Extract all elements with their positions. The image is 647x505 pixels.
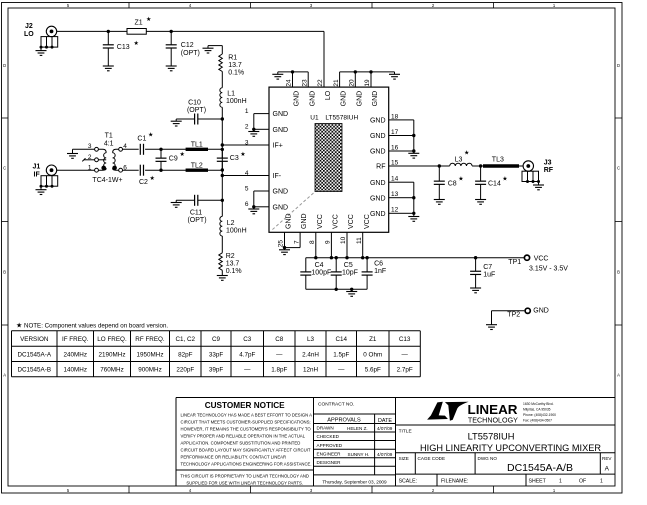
svg-text:Thursday, September 03, 2009: Thursday, September 03, 2009 <box>322 479 387 484</box>
svg-text:C12: C12 <box>181 42 194 49</box>
svg-text:HIGH LINEARITY UPCONVERTING MI: HIGH LINEARITY UPCONVERTING MIXER <box>420 443 601 454</box>
svg-text:CHECKED: CHECKED <box>317 434 340 439</box>
svg-text:B: B <box>3 270 6 275</box>
svg-text:GND: GND <box>273 127 289 134</box>
svg-text:3: 3 <box>88 143 92 150</box>
svg-text:0.1%: 0.1% <box>226 268 242 275</box>
svg-text:24: 24 <box>286 79 293 87</box>
svg-text:100nH: 100nH <box>226 227 247 234</box>
svg-text:GND: GND <box>370 133 386 140</box>
svg-text:8: 8 <box>309 240 316 244</box>
svg-text:GND: GND <box>286 213 293 229</box>
svg-text:5.6pF: 5.6pF <box>365 367 381 374</box>
svg-text:FILENAME:: FILENAME: <box>441 479 468 485</box>
svg-text:★: ★ <box>16 322 22 330</box>
svg-text:20: 20 <box>349 79 356 87</box>
svg-text:GND: GND <box>370 211 386 218</box>
svg-text:C4: C4 <box>315 262 324 269</box>
svg-text:U1: U1 <box>310 114 319 121</box>
svg-text:IF+: IF+ <box>273 143 283 150</box>
svg-text:LT5578IUH: LT5578IUH <box>325 114 358 121</box>
svg-text:0 Ohm: 0 Ohm <box>363 352 382 359</box>
svg-text:1: 1 <box>245 108 249 115</box>
svg-text:VERSION: VERSION <box>20 336 49 343</box>
svg-text:C13: C13 <box>117 44 130 51</box>
svg-text:OF: OF <box>579 479 586 485</box>
svg-text:LO: LO <box>325 90 332 100</box>
svg-text:15: 15 <box>391 159 399 166</box>
svg-text:19: 19 <box>364 79 371 87</box>
svg-text:★: ★ <box>146 16 151 23</box>
svg-text:GND: GND <box>341 91 348 107</box>
svg-text:TP2: TP2 <box>507 312 520 319</box>
svg-text:VERIFY PROPER AND RELIABLE OPE: VERIFY PROPER AND RELIABLE OPERATION IN … <box>181 434 306 439</box>
svg-text:39pF: 39pF <box>209 367 224 374</box>
svg-text:C3: C3 <box>243 336 252 343</box>
svg-text:LINEAR TECHNOLOGY HAS MADE A B: LINEAR TECHNOLOGY HAS MADE A BEST EFFORT… <box>181 413 313 418</box>
svg-text:Z1: Z1 <box>369 336 377 343</box>
svg-text:GND: GND <box>533 307 549 314</box>
svg-text:0.1%: 0.1% <box>228 69 244 76</box>
svg-text:100pF: 100pF <box>311 269 331 276</box>
svg-text:LT5578IUH: LT5578IUH <box>468 432 515 442</box>
svg-text:900MHz: 900MHz <box>138 367 161 374</box>
svg-text:1950MHz: 1950MHz <box>137 352 164 359</box>
svg-text:J2: J2 <box>25 23 33 30</box>
svg-text:HOWEVER, IT REMAINS THE CUSTOM: HOWEVER, IT REMAINS THE CUSTOMER'S RESPO… <box>181 427 312 432</box>
svg-text:11: 11 <box>356 237 363 244</box>
svg-text:PERFORMANCE OR RELIABILITY. C: PERFORMANCE OR RELIABILITY. CONTACT LINE… <box>181 455 287 460</box>
svg-text:D: D <box>3 63 6 68</box>
svg-text:CONTRACT NO.: CONTRACT NO. <box>318 402 354 408</box>
svg-text:L3: L3 <box>455 156 463 163</box>
svg-text:—: — <box>338 367 345 374</box>
svg-text:1.8pF: 1.8pF <box>271 367 287 374</box>
svg-text:23: 23 <box>301 79 308 87</box>
svg-text:★: ★ <box>458 176 463 183</box>
svg-text:★: ★ <box>464 150 469 157</box>
svg-text:18: 18 <box>391 113 399 120</box>
svg-text:240MHz: 240MHz <box>64 352 87 359</box>
svg-text:R2: R2 <box>226 253 235 260</box>
svg-text:★: ★ <box>134 40 139 47</box>
svg-text:C11: C11 <box>190 209 202 216</box>
svg-text:THIS CIRCUIT IS PROPRIETARY TO: THIS CIRCUIT IS PROPRIETARY TO LINEAR TE… <box>180 473 309 478</box>
svg-text:—: — <box>244 367 251 374</box>
svg-text:TC4-1W+: TC4-1W+ <box>92 177 122 184</box>
svg-text:33pF: 33pF <box>209 352 224 359</box>
svg-text:TL2: TL2 <box>191 162 203 169</box>
svg-text:13.7: 13.7 <box>226 260 240 267</box>
svg-text:9: 9 <box>325 240 332 244</box>
svg-text:C8: C8 <box>275 336 284 343</box>
svg-text:1630 McCarthy Blvd.: 1630 McCarthy Blvd. <box>523 402 554 406</box>
svg-text:12nH: 12nH <box>303 367 319 374</box>
svg-text:Z1: Z1 <box>135 20 143 27</box>
svg-text:(OPT): (OPT) <box>187 107 206 114</box>
svg-text:L1: L1 <box>227 91 235 98</box>
svg-text:6: 6 <box>245 201 249 208</box>
svg-text:25: 25 <box>278 240 285 248</box>
svg-text:1.5pF: 1.5pF <box>333 352 349 359</box>
svg-text:22: 22 <box>317 79 324 87</box>
svg-text:C13: C13 <box>399 336 411 343</box>
svg-text:TL3: TL3 <box>492 156 504 163</box>
svg-text:DC1545A-A/B: DC1545A-A/B <box>507 462 573 474</box>
svg-text:DC1545A-A: DC1545A-A <box>17 352 51 359</box>
svg-text:C: C <box>3 166 6 171</box>
svg-text:12: 12 <box>391 207 399 214</box>
svg-text:13.7: 13.7 <box>228 62 242 69</box>
svg-text:VCC: VCC <box>534 255 549 262</box>
svg-text:GND: GND <box>309 91 316 107</box>
svg-text:C8: C8 <box>448 181 457 188</box>
svg-text:★: ★ <box>150 175 155 182</box>
svg-text:GND: GND <box>370 149 386 156</box>
svg-text:GND: GND <box>273 204 289 211</box>
svg-text:R1: R1 <box>228 54 237 61</box>
svg-text:★: ★ <box>240 151 245 158</box>
svg-text:2.4nH: 2.4nH <box>302 352 319 359</box>
svg-text:760MHz: 760MHz <box>100 367 123 374</box>
svg-text:GND: GND <box>356 91 363 107</box>
svg-text:SUPPLIED FOR USE WITH LINEAR T: SUPPLIED FOR USE WITH LINEAR TECHNOLOGY … <box>186 480 303 485</box>
svg-text:Phone: (408)432-1900: Phone: (408)432-1900 <box>523 413 556 417</box>
svg-text:3.15V - 3.5V: 3.15V - 3.5V <box>529 265 568 272</box>
svg-text:—: — <box>402 352 409 359</box>
svg-text:NOTE: Component values depend: NOTE: Component values depend on board v… <box>24 322 168 329</box>
svg-text:4/07/09: 4/07/09 <box>377 426 393 431</box>
svg-text:T1: T1 <box>105 132 113 139</box>
svg-text:2190MHz: 2190MHz <box>99 352 126 359</box>
svg-text:C1, C2: C1, C2 <box>175 336 195 343</box>
svg-text:GND: GND <box>372 91 379 107</box>
svg-text:GND: GND <box>273 111 289 118</box>
svg-text:VCC: VCC <box>364 214 371 229</box>
svg-text:C10: C10 <box>188 99 201 106</box>
svg-text:1uF: 1uF <box>483 272 495 279</box>
svg-text:C6: C6 <box>374 261 383 268</box>
svg-text:DC1545A-B: DC1545A-B <box>17 367 51 374</box>
svg-text:3: 3 <box>245 139 249 146</box>
svg-text:VCC: VCC <box>317 214 324 229</box>
svg-text:RF: RF <box>376 164 385 171</box>
svg-text:GND: GND <box>294 91 301 107</box>
svg-text:SHEET: SHEET <box>529 479 547 485</box>
svg-text:ENGINEER: ENGINEER <box>317 451 342 456</box>
svg-text:4: 4 <box>245 170 249 177</box>
svg-text:C2: C2 <box>139 179 148 186</box>
svg-text:★: ★ <box>502 176 507 183</box>
svg-text:D: D <box>617 63 620 68</box>
svg-text:★: ★ <box>148 132 153 139</box>
svg-text:DRAWN: DRAWN <box>317 426 334 431</box>
svg-text:GND: GND <box>301 213 308 229</box>
svg-text:CAGE CODE: CAGE CODE <box>418 456 446 461</box>
svg-text:SUNNY H.: SUNNY H. <box>348 452 370 457</box>
svg-text:C14: C14 <box>335 336 347 343</box>
svg-text:LO: LO <box>24 31 34 38</box>
svg-text:4.7pF: 4.7pF <box>239 352 255 359</box>
svg-text:VCC: VCC <box>348 214 355 229</box>
svg-text:TP1: TP1 <box>508 259 521 266</box>
svg-text:A: A <box>3 373 6 378</box>
svg-text:—: — <box>276 352 283 359</box>
svg-text:5: 5 <box>245 185 249 192</box>
svg-text:10: 10 <box>340 236 347 244</box>
svg-text:SIZE: SIZE <box>399 456 409 461</box>
svg-text:1nF: 1nF <box>374 268 386 275</box>
svg-text:C5: C5 <box>344 262 353 269</box>
svg-text:J3: J3 <box>544 159 552 166</box>
svg-text:GND: GND <box>370 195 386 202</box>
svg-text:CIRCUIT THAT MEETS CUSTOMER-SU: CIRCUIT THAT MEETS CUSTOMER-SUPPLIED SPE… <box>181 420 311 425</box>
svg-text:TECHNOLOGY APPLICATIONS ENGINE: TECHNOLOGY APPLICATIONS ENGINEERING FOR … <box>181 462 312 467</box>
svg-text:C9: C9 <box>212 336 221 343</box>
svg-text:APPLICATION. COMPONENT SUBSTI: APPLICATION. COMPONENT SUBSTITUTION AND … <box>181 441 301 446</box>
svg-text:C3: C3 <box>230 155 239 162</box>
svg-text:LO FREQ.: LO FREQ. <box>97 336 127 343</box>
svg-text:APPROVALS: APPROVALS <box>327 417 361 423</box>
svg-text:C9: C9 <box>169 156 178 163</box>
svg-text:IF: IF <box>34 171 41 178</box>
svg-text:7: 7 <box>293 240 300 244</box>
svg-text:1: 1 <box>559 479 562 485</box>
svg-text:Milpitas, CA 95035: Milpitas, CA 95035 <box>523 407 551 411</box>
svg-text:GND: GND <box>370 180 386 187</box>
svg-text:IF FREQ.: IF FREQ. <box>62 336 89 343</box>
svg-text:4/07/09: 4/07/09 <box>377 452 393 457</box>
svg-text:DATE: DATE <box>378 418 392 424</box>
svg-text:C7: C7 <box>483 264 492 271</box>
svg-text:C1: C1 <box>137 136 146 143</box>
svg-text:17: 17 <box>391 129 399 136</box>
svg-text:SCALE:: SCALE: <box>399 479 417 485</box>
svg-text:2: 2 <box>88 154 92 161</box>
svg-text:GND: GND <box>370 118 386 125</box>
svg-text:CIRCUIT BOARD LAYOUT MAY SIGNI: CIRCUIT BOARD LAYOUT MAY SIGNIFICANTLY A… <box>181 448 311 453</box>
svg-text:TECHNOLOGY: TECHNOLOGY <box>468 415 518 424</box>
svg-text:10pF: 10pF <box>342 269 358 276</box>
svg-text:★: ★ <box>180 151 185 158</box>
svg-text:A: A <box>617 373 620 378</box>
svg-text:B: B <box>617 270 620 275</box>
svg-text:140MHz: 140MHz <box>64 367 87 374</box>
svg-text:1: 1 <box>88 165 92 172</box>
svg-text:220pF: 220pF <box>176 367 194 374</box>
svg-text:4:1: 4:1 <box>104 140 114 147</box>
svg-text:IF-: IF- <box>273 173 282 180</box>
svg-text:REV: REV <box>602 456 612 461</box>
svg-text:82pF: 82pF <box>178 352 193 359</box>
svg-text:100nH: 100nH <box>226 98 247 105</box>
svg-text:21: 21 <box>333 79 340 87</box>
svg-text:1: 1 <box>600 479 603 485</box>
svg-text:13: 13 <box>391 191 399 198</box>
svg-text:(OPT): (OPT) <box>187 217 206 224</box>
svg-text:A: A <box>605 466 610 473</box>
svg-text:TITLE: TITLE <box>399 429 412 435</box>
svg-text:2: 2 <box>245 124 249 131</box>
svg-text:DWG NO: DWG NO <box>478 456 498 461</box>
svg-text:16: 16 <box>391 144 399 151</box>
svg-text:C: C <box>617 166 620 171</box>
svg-text:J1: J1 <box>33 164 41 171</box>
svg-text:(OPT): (OPT) <box>181 50 200 57</box>
svg-text:VCC: VCC <box>333 214 340 229</box>
svg-text:Fax: (408)434-0507: Fax: (408)434-0507 <box>523 419 552 423</box>
svg-text:APPROVED: APPROVED <box>317 443 343 448</box>
svg-text:HELEN Z.: HELEN Z. <box>347 426 368 431</box>
svg-text:RF FREQ.: RF FREQ. <box>135 336 165 343</box>
svg-text:L2: L2 <box>227 220 235 227</box>
svg-text:14: 14 <box>391 176 399 183</box>
svg-text:RF: RF <box>544 167 554 174</box>
svg-text:DESIGNER: DESIGNER <box>317 460 342 465</box>
svg-text:TL1: TL1 <box>191 142 203 149</box>
svg-text:C14: C14 <box>488 181 501 188</box>
svg-text:2.7pF: 2.7pF <box>397 367 413 374</box>
svg-text:GND: GND <box>273 189 289 196</box>
svg-text:CUSTOMER NOTICE: CUSTOMER NOTICE <box>205 401 285 410</box>
svg-text:L3: L3 <box>307 336 315 343</box>
